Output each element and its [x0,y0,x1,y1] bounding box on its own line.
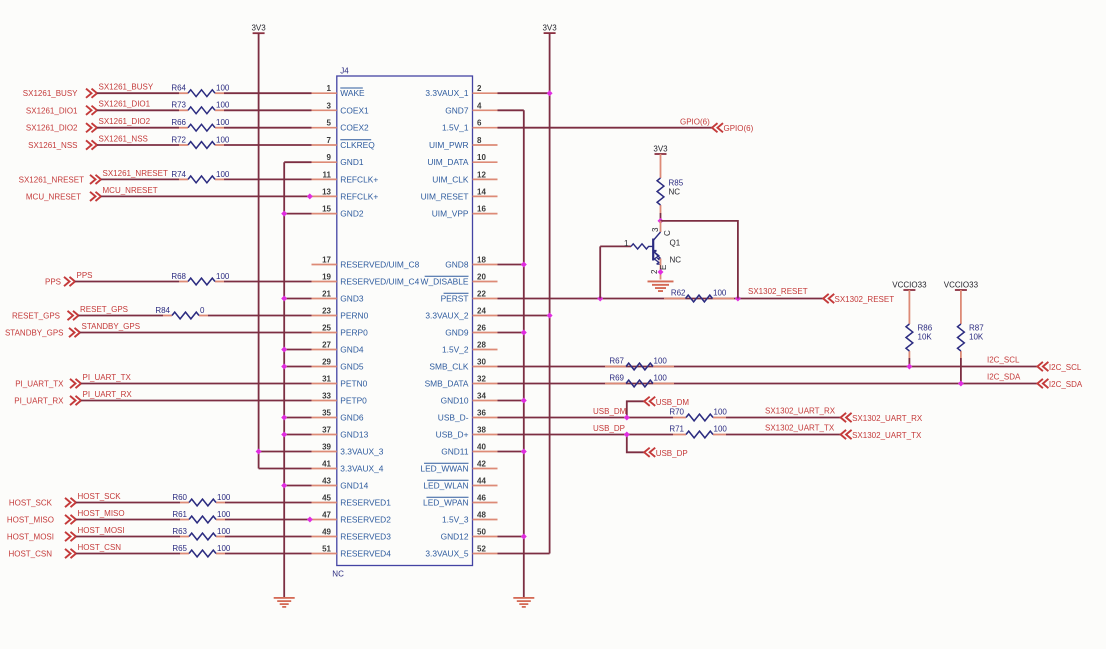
svg-text:35: 35 [322,409,331,418]
wire I2C_SDA [498,383,1038,385]
pin 12 UIM_CLK [432,170,497,184]
junction 3.3VAUX_2 [547,313,553,319]
junction GND bus [281,432,287,438]
svg-text:23: 23 [322,307,331,316]
svg-text:3.3VAUX_1: 3.3VAUX_1 [425,88,468,98]
pin 26 GND9 [445,324,497,338]
pin 33 PETP0 [312,392,368,406]
svg-text:14: 14 [477,187,486,196]
pin 27 GND4 [312,341,364,355]
pin 46 LED_WPAN [423,494,497,508]
svg-text:48: 48 [477,511,486,520]
svg-text:38: 38 [477,426,486,435]
wire R87 to SDA [960,358,962,384]
pin 19 RESERVED/UIM_C4 [312,273,420,287]
svg-text:1: 1 [327,84,332,93]
svg-text:PERST: PERST [441,294,469,304]
svg-text:R69: R69 [609,373,624,382]
svg-text:SX1261_BUSY: SX1261_BUSY [23,89,78,98]
ground left [274,597,295,608]
svg-text:HOST_MOSI: HOST_MOSI [78,526,125,535]
svg-text:R68: R68 [171,272,186,281]
port HOST_MOSI [7,532,76,542]
svg-text:GPIO(6): GPIO(6) [724,124,754,133]
port SX1261_BUSY [23,89,97,99]
svg-text:100: 100 [654,373,668,382]
svg-text:19: 19 [322,273,331,282]
wire PI_UART_TX [81,383,312,385]
resistor R65 [172,544,231,557]
pin 40 GND11 [441,443,497,457]
svg-text:USB_D-: USB_D- [438,413,469,423]
svg-text:SX1261_NRESET: SX1261_NRESET [19,175,84,184]
pin 13 REFCLK+ [312,187,379,201]
svg-text:SX1302_RESET: SX1302_RESET [748,287,808,296]
svg-text:40: 40 [477,443,486,452]
wire HOST_SCK [76,502,180,504]
power 3V3 left [251,24,266,34]
svg-text:HOST_SCK: HOST_SCK [78,492,122,501]
transistor Q1 [600,221,681,299]
svg-text:20: 20 [477,273,486,282]
svg-text:R62: R62 [671,288,686,297]
svg-text:GND10: GND10 [441,396,469,406]
svg-text:30: 30 [477,358,486,367]
junction USB_DM [624,415,630,421]
resistor R85 [657,154,684,213]
wire 3V3 left rail [259,33,312,468]
resistor R68 [171,272,230,285]
svg-text:47: 47 [322,511,331,520]
svg-text:COEX2: COEX2 [340,123,369,133]
svg-text:R66: R66 [171,118,186,127]
svg-text:NC: NC [670,256,682,265]
svg-text:USB_DM: USB_DM [593,407,627,416]
svg-text:34: 34 [477,392,486,401]
junction GND bus right [521,330,527,336]
svg-text:R60: R60 [172,493,187,502]
svg-text:2: 2 [650,269,659,274]
port SX1302_UART_RX [841,413,923,423]
svg-text:RESET_GPS: RESET_GPS [80,305,128,314]
svg-text:0: 0 [200,306,205,315]
svg-text:100: 100 [217,544,231,553]
pin 32 SMB_DATA [425,375,498,389]
svg-text:3: 3 [651,227,660,232]
svg-text:24: 24 [477,307,486,316]
wire R85 to Q1 collector [660,213,662,221]
pin 29 GND5 [312,358,364,372]
svg-text:33: 33 [322,392,331,401]
pin 50 GND12 [441,528,498,542]
svg-text:SX1261_DIO1: SX1261_DIO1 [26,106,78,115]
svg-text:13: 13 [322,187,331,196]
svg-text:100: 100 [216,101,230,110]
svg-text:27: 27 [322,341,331,350]
wire collector tie [661,221,738,299]
resistor R62 [664,288,734,302]
connector J4 outline [332,67,472,579]
ground Q1 [648,281,674,293]
svg-text:5: 5 [327,119,332,128]
resistor R67 [605,356,674,370]
svg-text:39: 39 [322,443,331,452]
svg-text:3.3VAUX_5: 3.3VAUX_5 [425,549,468,559]
svg-text:I2C_SCL: I2C_SCL [987,356,1020,365]
pin 34 GND10 [441,392,498,406]
svg-text:10K: 10K [918,333,933,342]
svg-text:GND1: GND1 [340,157,364,167]
junction R62 left [597,296,603,302]
junction GND bus [281,364,287,370]
svg-text:26: 26 [477,324,486,333]
wire PPS [75,281,179,283]
wire SX1261_BUSY [97,92,179,94]
svg-text:R85: R85 [669,179,684,188]
svg-text:3.3VAUX_3: 3.3VAUX_3 [340,447,383,457]
svg-text:I2C_SDA: I2C_SDA [987,373,1021,382]
svg-text:J4: J4 [340,67,349,76]
pin 47 RESERVED2 [312,511,392,525]
resistor R70 [669,407,727,421]
svg-text:SX1261_DIO1: SX1261_DIO1 [99,100,151,109]
svg-text:R67: R67 [609,356,624,365]
pin 36 USB_D- [438,409,498,423]
pin 20 W_DISABLE [421,273,498,287]
resistor R72 [171,135,230,148]
svg-text:R86: R86 [918,324,933,333]
svg-text:1.5V_3: 1.5V_3 [442,515,469,525]
pin 17 RESERVED/UIM_C8 [312,256,420,270]
svg-text:32: 32 [477,375,486,384]
svg-text:SX1302_UART_TX: SX1302_UART_TX [765,424,835,433]
wire SX1261_DIO1 [97,109,179,111]
pin 51 RESERVED4 [312,545,392,559]
svg-text:GND5: GND5 [340,362,364,372]
pin 24 3.3VAUX_2 [425,307,497,321]
svg-text:UIM_PWR: UIM_PWR [429,140,469,150]
wire R86 to SCL [908,358,910,367]
port STANDBY_GPS [5,328,80,338]
svg-text:GND12: GND12 [441,532,469,542]
svg-text:USB_DP: USB_DP [656,449,688,458]
pin 31 PETN0 [312,375,368,389]
pin 3 COEX1 [312,101,370,115]
svg-text:43: 43 [322,477,331,486]
svg-text:50: 50 [477,528,486,537]
svg-text:22: 22 [477,290,486,299]
svg-text:RESERVED/UIM_C4: RESERVED/UIM_C4 [340,277,419,287]
svg-text:STANDBY_GPS: STANDBY_GPS [5,329,64,338]
power 3V3 Q1 [653,145,668,155]
svg-text:PI_UART_RX: PI_UART_RX [14,397,64,406]
svg-text:100: 100 [216,135,230,144]
wire HOST_MOSI [76,536,180,538]
svg-text:SX1261_BUSY: SX1261_BUSY [99,83,154,92]
resistor R87 [958,290,985,358]
svg-text:SX1302_UART_RX: SX1302_UART_RX [765,407,836,416]
svg-text:31: 31 [322,375,331,384]
svg-text:LED_WLAN: LED_WLAN [423,481,468,491]
svg-text:15: 15 [322,205,331,214]
svg-text:STANDBY_GPS: STANDBY_GPS [82,322,141,331]
pin 38 USB_D+ [436,426,498,440]
svg-text:8: 8 [477,136,482,145]
svg-text:GND11: GND11 [441,447,469,457]
wire I2C_SCL [498,366,1038,368]
pin 48 1.5V_3 [442,511,498,525]
pin 41 3.3VAUX_4 [312,460,384,474]
pin 28 1.5V_2 [442,341,498,355]
svg-text:HOST_MISO: HOST_MISO [78,509,125,518]
port GPIO(6) [712,123,754,133]
pin 10 UIM_DATA [427,153,497,167]
junction MCU_NRESET [307,193,313,199]
pin 9 GND1 [312,153,364,167]
wire USB_DP branch [627,435,644,453]
svg-text:PETN0: PETN0 [340,379,367,389]
pin 22 PERST [441,290,498,304]
svg-text:28: 28 [477,341,486,350]
junction 3.3VAUX_1 [547,90,553,96]
svg-text:PERN0: PERN0 [340,311,368,321]
svg-text:UIM_RESET: UIM_RESET [421,191,469,201]
port I2C_SCL [1037,362,1082,372]
pin 6 1.5V_1 [442,119,498,133]
svg-text:PERP0: PERP0 [340,328,368,338]
port PPS [45,277,75,287]
svg-text:HOST_SCK: HOST_SCK [9,499,53,508]
wire PERST/SX1302_RESET [498,298,824,300]
wire 3V3 right rail [498,33,550,553]
power VCCIO33 R86 [892,281,927,291]
svg-text:REFCLK+: REFCLK+ [340,191,378,201]
svg-text:R87: R87 [969,324,984,333]
svg-text:25: 25 [322,324,331,333]
svg-text:CLKREQ: CLKREQ [340,140,375,150]
svg-text:R70: R70 [669,407,684,416]
svg-text:I2C_SDA: I2C_SDA [1049,380,1083,389]
resistor R71 [669,424,727,438]
svg-text:3V3: 3V3 [653,145,668,154]
svg-text:HOST_CSN: HOST_CSN [8,550,52,559]
junction GND bus [281,415,287,421]
svg-text:SX1302_UART_TX: SX1302_UART_TX [852,431,922,440]
wire USB_DM [498,417,841,419]
port SX1302_RESET [823,294,894,304]
pin 25 PERP0 [312,324,369,338]
resistor R61 [172,510,231,523]
svg-text:WAKE: WAKE [340,88,365,98]
svg-text:100: 100 [217,527,231,536]
pin 43 GND14 [312,477,369,491]
svg-text:100: 100 [216,118,230,127]
port PI_UART_RX [14,396,81,406]
svg-text:USB_DM: USB_DM [656,398,690,407]
junction Q1 emitter [658,269,664,275]
junction GND bus [281,296,287,302]
resistor R84 [155,306,208,319]
svg-text:SX1261_DIO2: SX1261_DIO2 [99,117,151,126]
svg-text:SX1261_NSS: SX1261_NSS [99,134,148,143]
svg-text:3V3: 3V3 [251,24,266,33]
port SX1261_NSS [28,140,97,150]
pin 15 GND2 [312,205,364,219]
svg-text:100: 100 [714,424,728,433]
pin 2 3.3VAUX_1 [425,84,497,98]
resistor R69 [605,373,674,387]
wire SX1261_DIO2 [97,127,179,129]
port PI_UART_TX [15,379,81,389]
svg-text:HOST_CSN: HOST_CSN [78,543,122,552]
svg-text:3.3VAUX_2: 3.3VAUX_2 [425,311,468,321]
junction SDA pullup [958,381,964,387]
svg-text:USB_D+: USB_D+ [436,430,469,440]
svg-text:52: 52 [477,545,486,554]
pin 8 UIM_PWR [429,136,498,150]
svg-text:R71: R71 [669,424,684,433]
svg-text:R84: R84 [155,306,170,315]
svg-text:GPIO(6): GPIO(6) [680,118,710,127]
svg-text:100: 100 [216,84,230,93]
svg-text:RESET_GPS: RESET_GPS [12,312,60,321]
pin 7 CLKREQ [312,136,376,150]
port SX1302_UART_TX [841,430,922,440]
svg-text:RESERVED1: RESERVED1 [340,498,391,508]
svg-text:1.5V_1: 1.5V_1 [442,123,469,133]
wire GPIO(6) [498,127,713,129]
svg-text:HOST_MOSI: HOST_MOSI [7,533,54,542]
wire HOST_CSN [76,553,180,555]
svg-text:SX1261_NRESET: SX1261_NRESET [103,169,168,178]
svg-text:SMB_CLK: SMB_CLK [429,362,469,372]
svg-text:COEX1: COEX1 [340,105,369,115]
svg-text:16: 16 [477,205,486,214]
svg-text:RESERVED2: RESERVED2 [340,515,391,525]
port USB_DP [644,448,688,458]
svg-text:R72: R72 [171,135,186,144]
pin 23 PERN0 [312,307,369,321]
svg-text:100: 100 [217,493,231,502]
junction GND bus right [521,449,527,455]
resistor R73 [171,101,230,114]
svg-text:46: 46 [477,494,486,503]
svg-text:VCCIO33: VCCIO33 [892,281,927,290]
port I2C_SDA [1037,379,1083,389]
svg-text:W_DISABLE: W_DISABLE [421,277,469,287]
junction GND bus [281,211,287,217]
junction Q1 collector [658,218,664,224]
svg-text:R74: R74 [171,170,186,179]
wire USB_DM branch [627,401,644,417]
svg-text:NC: NC [669,188,681,197]
svg-text:R63: R63 [172,527,187,536]
svg-text:3V3: 3V3 [542,24,557,33]
svg-text:42: 42 [477,460,486,469]
pin 49 RESERVED3 [312,528,392,542]
svg-text:LED_WPAN: LED_WPAN [423,498,468,508]
port SX1261_NRESET [19,175,101,185]
pin 4 GND7 [445,101,497,115]
svg-text:RESERVED/UIM_C8: RESERVED/UIM_C8 [340,260,419,270]
svg-text:11: 11 [323,170,332,179]
svg-text:GND14: GND14 [340,481,368,491]
port RESET_GPS [12,311,79,321]
svg-text:PPS: PPS [45,278,61,287]
svg-text:PI_UART_TX: PI_UART_TX [15,380,64,389]
svg-text:I2C_SCL: I2C_SCL [1049,363,1082,372]
pin 30 SMB_CLK [429,358,497,372]
svg-text:VCCIO33: VCCIO33 [944,281,979,290]
resistor R74 [171,170,230,183]
svg-text:SX1302_UART_RX: SX1302_UART_RX [852,414,923,423]
port SX1261_DIO1 [26,106,97,116]
svg-text:17: 17 [322,256,331,265]
svg-text:SX1261_NSS: SX1261_NSS [28,141,77,150]
svg-text:REFCLK+: REFCLK+ [340,174,378,184]
svg-text:SMB_DATA: SMB_DATA [425,379,469,389]
svg-text:1: 1 [624,239,629,248]
svg-text:GND8: GND8 [445,260,469,270]
svg-text:3: 3 [327,101,332,110]
svg-text:100: 100 [216,170,230,179]
pin 44 LED_WLAN [423,477,497,491]
svg-text:GND2: GND2 [340,209,364,219]
svg-text:MCU_NRESET: MCU_NRESET [103,186,158,195]
port SX1261_DIO2 [26,123,97,133]
wire GND bus right [498,110,524,597]
resistor R86 [906,290,933,358]
power VCCIO33 R87 [944,281,979,291]
wire STANDBY_GPS [80,332,312,334]
svg-text:MCU_NRESET: MCU_NRESET [26,192,81,201]
wire RESET_GPS [79,315,164,317]
pin 42 LED_WWAN [420,460,497,474]
junction GND bus right [521,534,527,540]
svg-text:36: 36 [477,409,486,418]
ground right [513,597,534,608]
svg-text:29: 29 [322,358,331,367]
svg-text:2: 2 [477,84,482,93]
svg-text:LED_WWAN: LED_WWAN [420,464,468,474]
svg-text:PI_UART_RX: PI_UART_RX [83,390,133,399]
svg-text:GND13: GND13 [340,430,368,440]
svg-text:100: 100 [216,272,230,281]
svg-text:GND9: GND9 [445,328,469,338]
svg-text:SX1302_RESET: SX1302_RESET [835,295,895,304]
svg-text:PI_UART_TX: PI_UART_TX [83,373,132,382]
svg-text:HOST_MISO: HOST_MISO [7,516,54,525]
junction R62 right [735,296,741,302]
svg-text:R65: R65 [172,544,187,553]
svg-text:44: 44 [477,477,486,486]
port USB_DM [644,397,689,407]
svg-text:UIM_VPP: UIM_VPP [432,209,469,219]
junction GND bus right [521,398,527,404]
svg-text:100: 100 [713,288,727,297]
svg-text:41: 41 [322,460,331,469]
pin 35 GND6 [312,409,364,423]
pin 16 UIM_VPP [432,205,498,219]
svg-text:GND6: GND6 [340,413,364,423]
svg-text:4: 4 [477,101,482,110]
svg-text:100: 100 [714,407,728,416]
resistor R63 [172,527,231,540]
pin 5 COEX2 [312,119,370,133]
power 3V3 right [542,24,557,33]
svg-text:R73: R73 [171,101,186,110]
junction HOST_MISO [307,517,313,523]
